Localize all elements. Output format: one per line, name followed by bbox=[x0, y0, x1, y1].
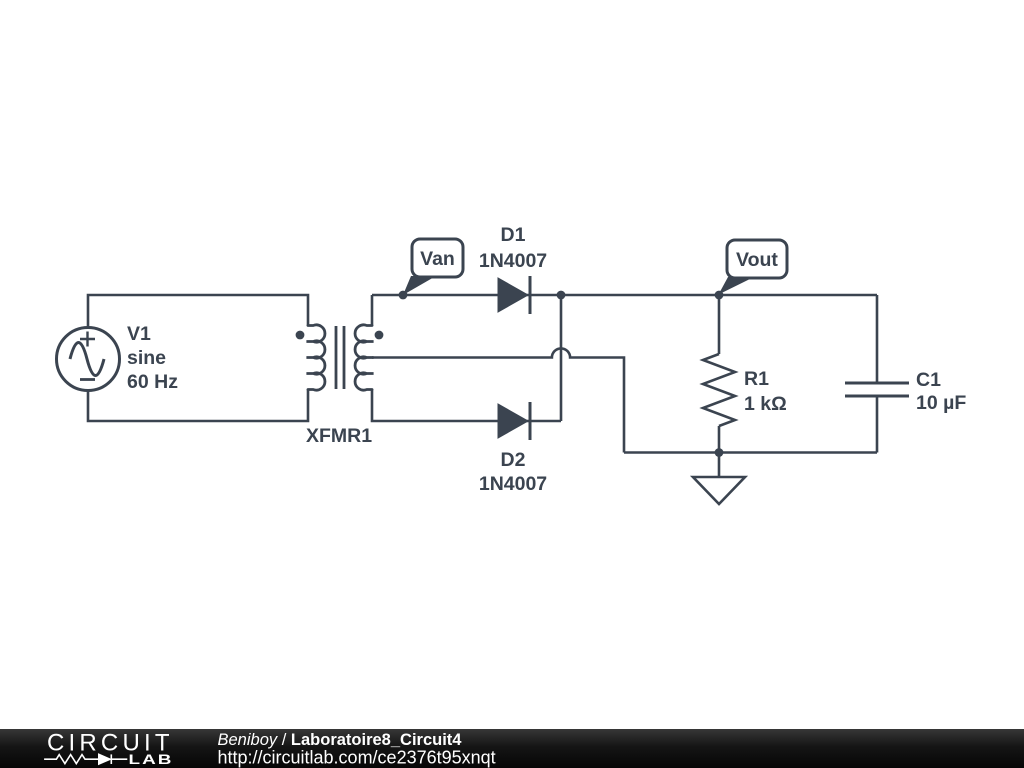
label D1 value bbox=[479, 224, 547, 272]
wire C1 bottom lead bbox=[876, 396, 879, 453]
logo resistor squiggle and diode bbox=[44, 754, 127, 764]
wire V1 top to primary bbox=[88, 295, 308, 328]
label D2 value bbox=[479, 449, 547, 495]
svg-text:60 Hz: 60 Hz bbox=[127, 371, 178, 393]
svg-text:V1: V1 bbox=[127, 323, 151, 345]
wire top rail Van to C1 bbox=[372, 294, 877, 297]
node junction dot D1-D2 bbox=[557, 291, 566, 300]
resistor R1 zigzag bbox=[703, 354, 735, 426]
svg-text:http://circuitlab.com/ce2376t9: http://circuitlab.com/ce2376t95xnqt bbox=[218, 748, 496, 768]
svg-text:1 kΩ: 1 kΩ bbox=[744, 393, 787, 415]
wire center tap with hop bbox=[372, 348, 624, 452]
label R1 value bbox=[744, 368, 787, 415]
node Van junction dot bbox=[399, 291, 408, 300]
wire secondary top riser bbox=[371, 295, 374, 326]
svg-text:1N4007: 1N4007 bbox=[479, 250, 547, 272]
node Van flag callout bbox=[403, 239, 463, 295]
node Vout flag callout bbox=[719, 240, 788, 295]
footer bar bbox=[0, 729, 1024, 768]
svg-text:sine: sine bbox=[127, 347, 166, 369]
svg-text:Van: Van bbox=[420, 248, 455, 270]
transformer core bbox=[336, 326, 344, 389]
node Vout junction dot bbox=[715, 291, 724, 300]
wire ground rail bbox=[624, 451, 877, 454]
svg-text:R1: R1 bbox=[744, 368, 769, 390]
transformer XFMR1 secondary coil bbox=[355, 325, 374, 390]
diode D2 bbox=[498, 402, 530, 440]
label V1 value bbox=[127, 323, 178, 393]
svg-text:10 µF: 10 µF bbox=[916, 392, 966, 414]
svg-text:LAB: LAB bbox=[129, 751, 174, 767]
transformer primary phase dot bbox=[296, 331, 305, 340]
svg-text:1N4007: 1N4007 bbox=[479, 473, 547, 495]
svg-text:D2: D2 bbox=[501, 449, 526, 471]
wire R1 top lead bbox=[718, 295, 721, 354]
wire C1 top lead bbox=[876, 295, 879, 383]
svg-text:C1: C1 bbox=[916, 369, 941, 391]
ground symbol bbox=[693, 453, 745, 505]
wire D2 cathode riser bbox=[560, 295, 563, 421]
transformer secondary phase dot bbox=[375, 331, 384, 340]
voltage source V1 bbox=[57, 328, 120, 391]
node ground junction dot bbox=[715, 448, 724, 457]
wire R1 bottom lead bbox=[718, 426, 721, 453]
diode D1 bbox=[498, 276, 530, 314]
svg-text:Beniboy / Laboratoire8_Circuit: Beniboy / Laboratoire8_Circuit4 bbox=[218, 731, 463, 749]
svg-text:D1: D1 bbox=[501, 224, 526, 246]
capacitor C1 plates bbox=[845, 383, 909, 396]
svg-text:XFMR1: XFMR1 bbox=[306, 425, 372, 447]
wire secondary bottom to D2 bbox=[372, 389, 561, 421]
svg-text:Vout: Vout bbox=[736, 249, 778, 271]
transformer XFMR1 primary coil bbox=[306, 325, 325, 390]
label C1 value bbox=[916, 369, 966, 414]
wire V1 bottom to primary bbox=[88, 389, 308, 421]
